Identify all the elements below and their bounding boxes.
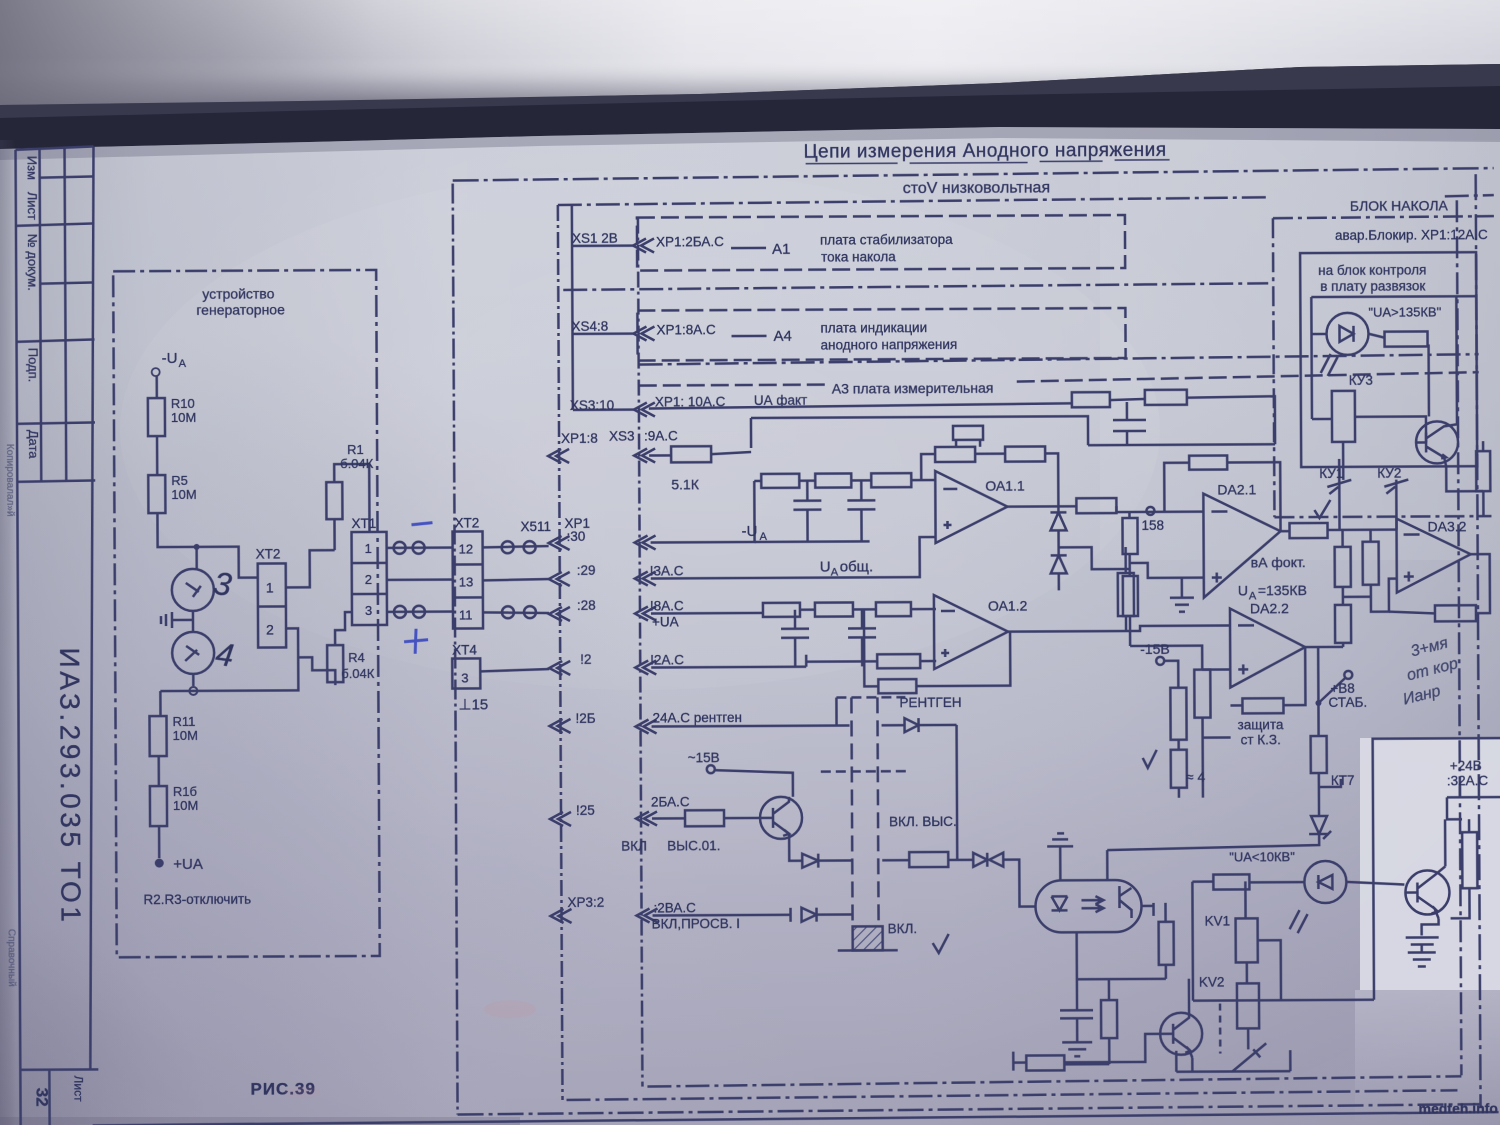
svg-text:А: А xyxy=(831,567,839,579)
svg-text:ХS4:8: ХS4:8 xyxy=(571,319,608,334)
bright lit patch bottom right (+24V area) xyxy=(1360,738,1500,990)
+UA filter cap 2 xyxy=(848,609,876,666)
capacitor on XS3 loop xyxy=(1113,402,1146,445)
bottom sheet box (Лист 32) xyxy=(20,1068,98,1071)
DA1.2 feedback loop xyxy=(864,609,1010,687)
svg-text:R2.R3-отключить: R2.R3-отключить xyxy=(143,892,251,908)
optocoupler emitter down xyxy=(1075,932,1078,979)
svg-text:R1б: R1б xyxy=(173,784,197,799)
resistor after LED xyxy=(1384,331,1427,346)
wire XT4 to bus xyxy=(480,669,549,671)
svg-text::32А.С: :32А.С xyxy=(1447,773,1489,788)
wire XT2l-1 to R1 chain xyxy=(286,550,335,587)
DA1.1 feedback upper small resistor xyxy=(953,426,983,440)
DA1.2 output wire xyxy=(1008,630,1126,633)
cap to ground bottom xyxy=(1060,979,1093,1056)
svg-text:ХТ2: ХТ2 xyxy=(454,515,479,530)
svg-text:+В8: +В8 xyxy=(1330,681,1354,696)
svg-text:3: 3 xyxy=(461,670,468,685)
ground of tubes xyxy=(161,612,193,628)
+UA filter resistor 1 xyxy=(763,603,800,617)
XP1:8 row wires xyxy=(649,452,751,456)
svg-text:-U: -U xyxy=(162,350,178,367)
svg-text:КУ1: КУ1 xyxy=(1319,466,1343,481)
x-ray tube 4 xyxy=(172,632,214,674)
board A1 box xyxy=(637,215,1125,271)
checkmark V at DA2.1 out xyxy=(1314,500,1330,518)
svg-text:Изм: Изм xyxy=(25,156,40,180)
wire label to A1 xyxy=(731,247,766,250)
svg-text:R5: R5 xyxy=(171,473,188,488)
svg-text:анодного напряжения: анодного напряжения xyxy=(821,337,958,353)
DA3.2 feedback resistor xyxy=(1435,605,1476,621)
KT7 chain resistor xyxy=(1311,736,1327,773)
-15B terminal xyxy=(707,765,715,773)
svg-text:U: U xyxy=(820,559,831,576)
-15B node circle xyxy=(1156,657,1164,665)
ground stub under hatch xyxy=(838,949,898,952)
LED indicator UA>135 xyxy=(1311,296,1490,530)
lower resistor on 1343 xyxy=(1335,605,1351,643)
svg-text:2БА.С: 2БА.С xyxy=(651,794,690,809)
svg-text:24А.С рентген: 24А.С рентген xyxy=(652,710,742,725)
resistor on XS3 row xyxy=(1072,392,1110,407)
sleeve circles row3b xyxy=(502,606,514,618)
resistor right of optocoupler xyxy=(1159,922,1174,965)
relay coil KV3 xyxy=(1332,391,1355,442)
svg-text:11: 11 xyxy=(459,607,473,622)
wire R16 to +UA xyxy=(158,826,161,858)
outer border left dash-dot xyxy=(453,184,458,1115)
DA1.1 feedback resistor right xyxy=(1005,446,1045,461)
outer border top dash-dot xyxy=(453,168,1494,180)
upper page being turned xyxy=(0,0,1500,105)
KV coils column xyxy=(1192,881,1246,1000)
generator device dash-dot box xyxy=(113,270,380,957)
svg-text:ХР1:2БА.С: ХР1:2БА.С xyxy=(656,234,724,249)
+24B box xyxy=(1373,738,1500,1000)
faint pink smudge xyxy=(484,1000,536,1018)
LED UA<10KB xyxy=(1304,861,1346,903)
wires between filter resistors xyxy=(799,479,935,482)
output resistor xyxy=(1076,498,1116,513)
switch unit dashed verticals xyxy=(851,697,852,926)
wire R11-R16 xyxy=(157,756,160,786)
:28A.C row diode xyxy=(653,907,853,922)
svg-text:б.04К: б.04К xyxy=(341,666,375,681)
wire R4 top to XT1-3 xyxy=(335,612,352,645)
op-amp DA1.1 xyxy=(935,471,1007,543)
ground at DA2.1 plus xyxy=(1170,578,1194,612)
XP1:8 row resistor xyxy=(671,446,711,462)
transistor +24B xyxy=(1405,870,1449,914)
ground +24B xyxy=(1408,952,1436,966)
svg-text:А: А xyxy=(760,531,768,543)
switch unit top dashed xyxy=(836,696,905,699)
svg-text:А3 плата измерительная: А3 плата измерительная xyxy=(832,380,994,397)
svg-text:!2: !2 xyxy=(580,652,591,667)
bottom page edge shadow xyxy=(0,1117,520,1125)
node dot tube4 xyxy=(189,687,197,695)
wire -UA to R10 xyxy=(155,376,158,398)
diode VD row861 xyxy=(802,853,852,867)
svg-text:ВКЛ.: ВКЛ. xyxy=(888,921,918,936)
рентген diode xyxy=(882,718,957,732)
svg-text:ВКЛ: ВКЛ xyxy=(621,839,647,854)
DA3.2 plus input xyxy=(1371,579,1397,612)
svg-text:+UА: +UА xyxy=(652,614,679,629)
bottom rail y1003 xyxy=(1193,998,1374,1001)
wire LED left to resistor xyxy=(1249,881,1304,884)
svg-text:Подп.: Подп. xyxy=(26,348,41,383)
resistor R1 xyxy=(326,482,342,519)
svg-text:БЛОК НАКОЛА: БЛОК НАКОЛА xyxy=(1350,197,1449,214)
svg-text:КУ2: КУ2 xyxy=(1377,466,1401,481)
DA2.2 output to KT7 chain xyxy=(1305,647,1343,736)
branch from diode chain right xyxy=(1059,547,1130,569)
svg-text:10М: 10М xyxy=(173,798,198,813)
svg-text:ХР1:8А.С: ХР1:8А.С xyxy=(656,322,716,337)
svg-text:-15В: -15В xyxy=(1140,641,1170,657)
revision table row lines xyxy=(16,223,94,225)
vertical resistor cluster b xyxy=(1194,670,1210,718)
svg-text:~15В: ~15В xyxy=(688,750,720,765)
wire XT1-1 to XT2r-12 with sleeves xyxy=(387,546,453,549)
filter cap 1 xyxy=(793,481,821,542)
svg-text:Лист: Лист xyxy=(71,1075,85,1102)
svg-text:плата стабилизатора: плата стабилизатора xyxy=(820,232,953,248)
Блок накала left border xyxy=(1273,218,1275,517)
DA2.1 output resistor xyxy=(1290,523,1328,538)
svg-text:12: 12 xyxy=(459,541,474,556)
collector to rail xyxy=(1188,979,1191,1014)
wire output to DA3.2 xyxy=(1281,530,1397,532)
filter resistor 1 xyxy=(761,474,799,488)
light arrows LED xyxy=(1290,910,1308,933)
sheet frame inner vertical xyxy=(86,146,99,1069)
СтоV box top dash-dot xyxy=(558,197,1268,205)
divider between A1 and A4 rows xyxy=(563,283,1268,290)
svg-text:стоV низковольтная: стоV низковольтная xyxy=(903,179,1050,197)
row2A.C wire xyxy=(651,654,936,667)
svg-text:+UА: +UА xyxy=(173,856,203,873)
connector XT1 box xyxy=(352,532,387,625)
title underline dashes xyxy=(806,160,1170,164)
DA2.1 plus input wire xyxy=(1130,563,1204,578)
wire XT1-2 to XT2r-13 xyxy=(387,578,453,581)
svg-text:ОА1.1: ОА1.1 xyxy=(985,478,1025,494)
cap +24B xyxy=(1406,918,1439,952)
+8B stab circle xyxy=(1344,671,1352,679)
op-amp DA3.2 xyxy=(1396,518,1470,592)
svg-text:!2Б: !2Б xyxy=(575,711,595,726)
svg-text:ВЫС.01.: ВЫС.01. xyxy=(667,838,720,853)
vertical resistor cluster a xyxy=(1170,688,1186,740)
Блок накала bottom border xyxy=(1274,516,1491,517)
KV2 contact slash xyxy=(1232,1043,1266,1071)
-UA rail under caps xyxy=(755,540,870,543)
svg-text:Х511: Х511 xyxy=(520,519,551,534)
soft shadow under the gap xyxy=(0,127,1500,160)
contact rail bottom xyxy=(1176,1050,1290,1072)
diode KT7 down xyxy=(1309,816,1331,839)
wire R1 top to XT1-1 xyxy=(334,464,369,532)
+UA filter resistor 2 xyxy=(815,602,853,616)
svg-text:3: 3 xyxy=(365,603,372,618)
svg-text:КТ7: КТ7 xyxy=(1331,773,1355,788)
svg-text:ХТ4: ХТ4 xyxy=(452,642,477,657)
double diode pair xyxy=(973,853,1003,867)
svg-text:R11: R11 xyxy=(172,714,195,729)
на блок контроля box xyxy=(1300,252,1477,467)
svg-text:плата индикации: плата индикации xyxy=(820,320,927,336)
svg-text:U: U xyxy=(1238,582,1248,598)
svg-text:А1: А1 xyxy=(772,241,790,258)
svg-text:!2А.С: !2А.С xyxy=(650,652,684,667)
optocoupler collector wire up to long line xyxy=(1106,850,1109,880)
rail under optocoupler xyxy=(1077,978,1166,981)
riser resistor above DA1.2 out xyxy=(1118,573,1134,616)
svg-text:KV1: KV1 xyxy=(1205,913,1231,928)
wire between and to right corner xyxy=(751,396,1275,448)
+UA row28 filter chain xyxy=(651,609,936,613)
svg-text::28: :28 xyxy=(577,598,596,613)
svg-text:"UА>135КВ": "UА>135КВ" xyxy=(1368,304,1441,319)
sleeve circles row3 xyxy=(394,606,406,618)
svg-text:1: 1 xyxy=(266,579,274,595)
resistor 2 on XS3 row xyxy=(1145,390,1187,405)
KV1 KV2 contacts xyxy=(1327,480,1351,530)
revision table labels xyxy=(25,156,42,460)
wire down from рентген diode xyxy=(955,725,958,860)
sleeve circles row1 xyxy=(394,542,406,554)
board edge chevron arrows x=640 xyxy=(633,238,654,252)
svg-text:ИАЗ.293.035 ТО1: ИАЗ.293.035 ТО1 xyxy=(54,647,86,925)
purple handwriting bottom right xyxy=(1401,634,1460,708)
resistor R10 xyxy=(148,398,165,436)
svg-text:ХР1:8: ХР1:8 xyxy=(561,431,598,446)
XS3-10 row wire xyxy=(573,408,636,411)
handwritten blue minus xyxy=(411,523,432,525)
wires -15B to resistors xyxy=(1130,631,1202,688)
XS4 row wire xyxy=(572,332,635,335)
26A.C row resistor xyxy=(685,810,724,826)
wire XT2r-11 to bus xyxy=(483,612,549,613)
A-board left border dash-dot xyxy=(638,218,643,1087)
svg-text:Справочный: Справочный xyxy=(6,929,17,987)
light arrows KV3 xyxy=(1321,354,1338,376)
svg-text:KV2: KV2 xyxy=(1199,975,1225,990)
resistor a lower xyxy=(1171,750,1187,788)
base network xyxy=(1013,1052,1026,1071)
svg-text:А4: А4 xyxy=(773,328,791,345)
ground above optocoupler xyxy=(1047,833,1073,880)
svg-text:medteh.info: medteh.info xyxy=(1419,1100,1498,1116)
revision table outer xyxy=(16,146,94,149)
x-ray tube 3 xyxy=(172,569,214,611)
optocoupler U1 xyxy=(1035,880,1141,933)
wire R10-R5 xyxy=(156,436,159,475)
terminal -UA xyxy=(152,368,160,376)
+UA filter resistor 3 xyxy=(876,602,911,616)
svg-text::9А.С: :9А.С xyxy=(644,428,678,443)
svg-text:R10: R10 xyxy=(171,396,195,411)
op-amp DA2.1 xyxy=(1203,493,1281,597)
feedback wires xyxy=(921,453,1058,507)
+UA filter cap 1 xyxy=(781,610,809,667)
handwritten blue plus xyxy=(404,629,428,654)
svg-text:!3А.С: !3А.С xyxy=(650,563,684,578)
op-amp DA1.2 xyxy=(934,595,1008,669)
DA1.2 feedback resistor xyxy=(878,679,916,693)
svg-text:10М: 10М xyxy=(171,410,196,425)
UA общ rail row29 xyxy=(651,537,936,578)
wire tube4 to R11 xyxy=(160,691,239,716)
divider between A4 and A3 rows xyxy=(639,354,1479,364)
DA2.2 plus input wire xyxy=(1202,668,1230,671)
svg-text:5.1К: 5.1К xyxy=(671,476,700,492)
connector XT4 box xyxy=(452,658,480,688)
svg-text:СТАБ.: СТАБ. xyxy=(1328,695,1367,710)
svg-text:№ докум.: № докум. xyxy=(25,234,40,291)
svg-text:авар.Блокир. ХР1:12А.С: авар.Блокир. ХР1:12А.С xyxy=(1335,227,1488,243)
svg-text:2: 2 xyxy=(266,621,274,637)
filter resistor 3 xyxy=(871,473,911,487)
bus chevron arrows on XP1 bus x=560 xyxy=(548,449,569,463)
svg-text:Дата: Дата xyxy=(26,430,41,460)
DA1.1 feedback resistor left xyxy=(935,447,975,462)
wire XT2r-13 to bus xyxy=(483,579,549,580)
svg-text:Лист: Лист xyxy=(25,192,40,220)
svg-text:DА3.2: DА3.2 xyxy=(1427,518,1466,534)
board A3 top dashed border xyxy=(639,372,1479,385)
terminal +UA dot xyxy=(155,859,164,868)
wire R5 to tube node xyxy=(157,513,257,579)
svg-text:-U: -U xyxy=(741,523,757,540)
checkmark v xyxy=(1143,750,1157,768)
svg-text:DА2.2: DА2.2 xyxy=(1250,600,1289,616)
СтоV box right dash-dot xyxy=(1457,200,1462,1075)
svg-text:устройство: устройство xyxy=(202,285,274,301)
filter resistor 2 xyxy=(815,473,851,487)
wire XS3-10 row long to right xyxy=(649,403,1072,408)
node dot DA2.2 out xyxy=(1315,700,1321,706)
bottom border lines xyxy=(647,1076,1461,1086)
svg-text:2: 2 xyxy=(365,572,372,587)
svg-text:R1: R1 xyxy=(347,442,364,457)
svg-text:РЕНТГЕН: РЕНТГЕН xyxy=(899,695,961,710)
transistor switch VT xyxy=(760,797,802,839)
svg-text:≈ 4: ≈ 4 xyxy=(1186,769,1206,785)
resistor row861 in switch xyxy=(882,859,909,862)
svg-text:общ.: общ. xyxy=(840,558,874,575)
svg-text:⊥15: ⊥15 xyxy=(458,696,488,713)
revision table column line xyxy=(40,149,42,482)
resistor R5 xyxy=(148,475,165,513)
switch crossing stubs xyxy=(821,770,906,773)
resistor on optocoupler emitter branch xyxy=(1064,979,1117,1064)
svg-text:защита: защита xyxy=(1238,717,1284,732)
resistor R16 xyxy=(150,786,167,826)
svg-text:158: 158 xyxy=(1141,518,1164,533)
dashed link KV2 xyxy=(1219,1004,1222,1054)
KV1 link wire xyxy=(1258,940,1281,1000)
wire XT2l-2 to R4 xyxy=(298,657,335,685)
XS1 riser wire xyxy=(572,204,573,410)
checkmark V bottom xyxy=(933,934,949,953)
Блок накала dash-dot box top xyxy=(1273,216,1494,218)
26A.C row wires xyxy=(652,817,761,820)
svg-text:+24В: +24В xyxy=(1450,758,1482,773)
svg-text:10М: 10М xyxy=(171,487,196,502)
wire XT1-3 to XT2r-11 xyxy=(387,610,453,613)
diode pair down from output node xyxy=(1050,506,1066,590)
svg-text:КУ3: КУ3 xyxy=(1349,373,1373,388)
vertical resistor under minus input xyxy=(1122,518,1137,554)
testpoint 158 circle xyxy=(1146,507,1154,515)
riser at x836 xyxy=(835,698,838,726)
24A.C рентген row wire xyxy=(652,725,850,726)
book edge darkening at far left xyxy=(0,0,1,1)
op-amp DA2.2 xyxy=(1230,608,1305,687)
resistor +24B xyxy=(1462,832,1477,888)
svg-text:ст К.З.: ст К.З. xyxy=(1241,732,1281,747)
svg-text:ХР3:2: ХР3:2 xyxy=(567,895,604,910)
svg-text:13: 13 xyxy=(459,574,474,589)
svg-text:ХТ1: ХТ1 xyxy=(351,516,376,531)
wire to DA2.1 minus xyxy=(1116,506,1203,512)
svg-text:=135КВ: =135КВ xyxy=(1258,582,1307,598)
DA2.2 feedback loop xyxy=(1230,647,1305,705)
connector XT2 left box xyxy=(258,563,286,647)
svg-text:ХТ2: ХТ2 xyxy=(256,546,281,561)
svg-text:32: 32 xyxy=(32,1088,51,1107)
resistor R11 xyxy=(149,716,166,756)
hatch box of switch xyxy=(853,926,883,950)
node dot on R5 wire xyxy=(194,544,200,550)
DA3.2 feedback loop xyxy=(1389,554,1490,614)
resistor right edge xyxy=(1476,451,1490,491)
svg-text:ВКЛ,ПРОСВ. I: ВКЛ,ПРОСВ. I xyxy=(652,916,740,931)
DA1.1 output wire xyxy=(1007,505,1076,508)
emitter to contact rail xyxy=(1191,1058,1194,1072)
row2 resistor to DA1.2 plus xyxy=(877,654,920,668)
filter cap 2 xyxy=(847,480,875,541)
board A4 box xyxy=(637,308,1125,361)
wire between tubes xyxy=(192,611,195,632)
wire to DA2.2 xyxy=(1126,625,1230,631)
transistor KV3 drive xyxy=(1416,421,1458,463)
СтоV box left dash-dot xyxy=(558,205,563,1100)
svg-text:ХS3:10: ХS3:10 xyxy=(570,398,614,413)
wire LED right to transistor xyxy=(1346,882,1404,885)
DA2.1 feedback loop xyxy=(1164,462,1280,532)
svg-text:!25: !25 xyxy=(576,803,595,818)
XS1 row wire xyxy=(572,244,635,247)
connector XT2 right box xyxy=(453,531,484,628)
svg-text:ХS1 2В: ХS1 2В xyxy=(572,231,618,246)
svg-text:тока накола: тока накола xyxy=(821,249,896,264)
СтоV box right top segment xyxy=(1445,195,1494,196)
KT7 testpoint xyxy=(1319,773,1341,816)
svg-text:1: 1 xyxy=(365,541,372,556)
svg-text::29: :29 xyxy=(577,563,596,578)
svg-text:ВКЛ. ВЫС.: ВКЛ. ВЫС. xyxy=(889,814,957,829)
second vertical resistor xyxy=(1123,576,1138,616)
sleeve circles row1b xyxy=(502,541,514,553)
wire label to A4 xyxy=(732,335,767,338)
svg-text:ХS3: ХS3 xyxy=(609,429,635,444)
